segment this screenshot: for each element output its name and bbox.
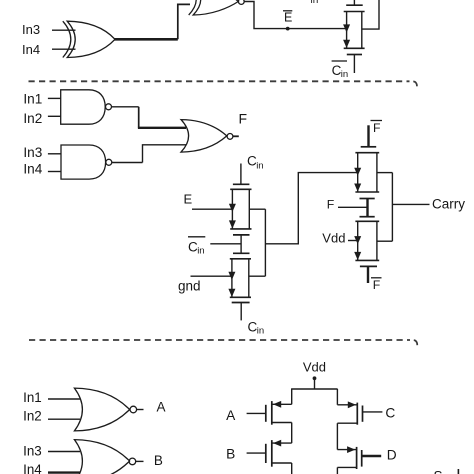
wire Carry output bbox=[392, 203, 429, 205]
current arrow bbox=[354, 184, 361, 192]
transistor QC gate lead bbox=[363, 411, 383, 413]
nor-gate U3 bubble bbox=[227, 134, 233, 140]
transistor M3 top gate bar bbox=[233, 183, 250, 185]
current arrow 1 bbox=[343, 24, 350, 32]
current arrow bbox=[229, 204, 236, 212]
transistor QC source stub + arrow bbox=[337, 404, 357, 406]
wire Vdd stub bbox=[314, 378, 316, 389]
xor-gate G1 input arc bbox=[63, 21, 71, 57]
wire In1 to NOR-A bbox=[48, 398, 80, 400]
pass box1 bottom lid bbox=[230, 228, 251, 230]
svg-text:In4: In4 bbox=[23, 161, 42, 176]
pass box1 right channel bbox=[248, 189, 250, 229]
pass box1 top lid bbox=[230, 188, 251, 190]
transistor M7 top gate stub (thick) bbox=[367, 125, 369, 147]
wire box2 right tap bbox=[249, 275, 266, 277]
wire box1 right tap bbox=[249, 208, 265, 210]
wire carry bus vertical bbox=[391, 173, 393, 242]
transistor QD drain stub bbox=[337, 466, 356, 468]
transistor M8 gate bar upper bbox=[360, 198, 375, 200]
wire NOR-A out bbox=[137, 409, 144, 411]
wire Vdd rail bbox=[291, 388, 338, 390]
wire E input bbox=[192, 208, 232, 210]
pass box2 bottom lid bbox=[230, 296, 251, 298]
wire NAND1 to NOR (thick) bbox=[138, 127, 186, 129]
wire left column upper bbox=[291, 389, 293, 404]
transistor M6 bottom gate stub bbox=[240, 303, 242, 321]
pass box1 left channel bbox=[231, 189, 233, 229]
wire gnd input bbox=[191, 275, 232, 277]
transistor M7 top gate bar bbox=[361, 146, 377, 148]
xnor-gate G2 input arc bbox=[189, 0, 197, 15]
wire In2 to NOR-A bbox=[48, 418, 80, 420]
pass box3 bottom lid bbox=[355, 191, 379, 193]
svg-text:in: in bbox=[341, 69, 348, 80]
wire In2 to NAND1 bbox=[48, 115, 61, 117]
wire In4 input to XOR bbox=[52, 48, 76, 50]
pass box4 left channel bbox=[357, 221, 359, 260]
transistor M5 gate bar lower bbox=[233, 252, 250, 254]
svg-text:F: F bbox=[373, 121, 381, 135]
transistor QB gate lead bbox=[247, 452, 266, 454]
current arrow bbox=[354, 168, 361, 176]
wire In3 to NAND2 bbox=[48, 153, 61, 155]
nor-gate U4 bubble bbox=[130, 406, 137, 413]
svg-text:In3: In3 bbox=[23, 145, 42, 160]
svg-text:In3: In3 bbox=[22, 22, 40, 37]
transistor M10 bottom gate stub (thick) bbox=[367, 266, 369, 283]
svg-text:In1: In1 bbox=[23, 390, 42, 405]
pass box4 top lid bbox=[355, 220, 379, 222]
wire below QD bbox=[336, 467, 338, 474]
wire NAND2 jog up bbox=[143, 145, 187, 163]
pass box3 left channel bbox=[357, 153, 359, 192]
xnor-gate G2 output bubble bbox=[238, 0, 244, 4]
nor-gate U3 body bbox=[181, 120, 227, 153]
svg-text:In4: In4 bbox=[23, 462, 42, 474]
wire right column upper bbox=[336, 389, 338, 405]
transistor M1 top gate bar bbox=[346, 4, 363, 6]
svg-text:D: D bbox=[387, 448, 397, 463]
transistor M3 top gate stub bbox=[240, 164, 242, 185]
wire In3 to NOR-B bbox=[48, 451, 80, 453]
wire NAND2 out bbox=[112, 162, 143, 164]
pass box4 bottom lid bbox=[355, 259, 379, 261]
transistor QA gate bar bbox=[265, 405, 267, 422]
wire Vdd input bbox=[348, 240, 358, 242]
dashed divider 1 bbox=[29, 80, 410, 82]
pass box2 right channel bbox=[248, 259, 250, 298]
wire NOR-B out bbox=[136, 460, 144, 462]
current arrow bbox=[354, 236, 361, 244]
wire NAND1 out bbox=[112, 106, 139, 108]
wire In3 input to XOR bbox=[52, 29, 76, 31]
transistor QC gate bar bbox=[362, 406, 364, 422]
label Fbar overbar (top) bbox=[371, 120, 383, 122]
svg-text:E: E bbox=[184, 191, 193, 206]
wire between QA QB bbox=[291, 423, 293, 444]
pass box2 top lid bbox=[230, 258, 251, 260]
wire below QB bbox=[291, 463, 293, 474]
pass box3 top lid bbox=[355, 152, 379, 154]
svg-text:F: F bbox=[327, 198, 335, 212]
svg-text:Vdd: Vdd bbox=[303, 359, 326, 374]
svg-text:In2: In2 bbox=[23, 111, 42, 126]
wire NAND1 jog down bbox=[138, 107, 140, 128]
transistor M9 gate bar lower bbox=[360, 216, 375, 218]
wire vertical up to XNOR bbox=[178, 4, 190, 39]
transistor QA drain stub bbox=[272, 422, 292, 424]
dashed divider 1 corner hook bbox=[413, 81, 417, 86]
wire right bus vertical bbox=[264, 209, 266, 276]
svg-text:In3: In3 bbox=[23, 443, 42, 458]
svg-text:A: A bbox=[226, 408, 236, 423]
transistor M1/M2 pass box top lid bbox=[344, 11, 365, 13]
pass box3 right channel bbox=[376, 153, 378, 192]
transistor M4 gate bar upper bbox=[233, 234, 250, 236]
svg-text:Carry: Carry bbox=[432, 197, 465, 212]
transistor QD channel bbox=[356, 447, 358, 469]
transistor QD gate lead (thick) bbox=[362, 455, 382, 457]
svg-text:In2: In2 bbox=[23, 409, 42, 424]
transistor QB source stub + arrow bbox=[272, 442, 292, 444]
current arrow bbox=[228, 272, 235, 280]
svg-text:In4: In4 bbox=[22, 42, 40, 57]
transistor M2 bottom gate stub bbox=[353, 55, 355, 74]
current arrow 2 bbox=[343, 40, 350, 48]
wire box4 right tap bbox=[377, 240, 393, 242]
nand-gate U1 body bbox=[61, 90, 105, 124]
transistor gate stub (Cinbar) bbox=[240, 235, 242, 253]
wire F to gate stub bbox=[338, 206, 368, 208]
transistor M10 bottom gate bar bbox=[360, 265, 377, 267]
wire In4 to NAND2 bbox=[48, 171, 61, 173]
transistor QA channel bbox=[271, 401, 273, 425]
svg-text:E: E bbox=[284, 11, 292, 25]
nand-gate U2 bubble bbox=[106, 159, 112, 165]
node Ebar overbar bbox=[283, 10, 292, 12]
svg-text:S: S bbox=[434, 469, 443, 474]
transistor M6 bottom gate bar bbox=[232, 302, 250, 304]
svg-text:C: C bbox=[385, 405, 395, 420]
svg-text:B: B bbox=[154, 453, 163, 468]
pass box right channel bbox=[361, 12, 363, 49]
svg-text:in: in bbox=[311, 0, 319, 6]
svg-text:in: in bbox=[257, 326, 264, 337]
wire Cin-bar to gate stub bbox=[210, 243, 241, 245]
pass box2 left channel bbox=[231, 259, 233, 298]
nor-gate U5 body (cropped) bbox=[74, 440, 129, 474]
transistor QB channel bbox=[271, 440, 273, 467]
pass box left channel bbox=[346, 12, 348, 49]
wire between QC QD bbox=[336, 423, 338, 449]
transistor M1 top gate stub (cropped) bbox=[353, 0, 355, 5]
wire box3 right tap bbox=[377, 172, 393, 174]
wire right tap of top box bbox=[362, 0, 379, 29]
nand-gate U2 body bbox=[61, 145, 106, 179]
dashed divider 2 bbox=[29, 339, 410, 341]
transistor QB drain stub bbox=[272, 462, 292, 464]
transistor QB gate bar bbox=[265, 444, 267, 463]
xor-gate G1 body bbox=[67, 21, 115, 57]
pass box bottom lid bbox=[344, 47, 365, 49]
wire In4 to NOR-B (thick) bbox=[48, 471, 80, 473]
pass box4 right channel bbox=[376, 221, 378, 260]
current arrow bbox=[354, 252, 361, 260]
svg-text:in: in bbox=[256, 161, 263, 172]
label Cin-bar overbar (center) bbox=[188, 236, 205, 238]
transistor QD gate bar bbox=[361, 450, 363, 467]
svg-text:gnd: gnd bbox=[178, 279, 201, 294]
wire middle tap to carry stage bbox=[265, 173, 357, 244]
nor-gate U5 bubble bbox=[129, 458, 136, 465]
svg-text:F: F bbox=[373, 278, 381, 292]
nand-gate U1 bubble bbox=[106, 104, 112, 110]
dashed divider 2 corner hook bbox=[414, 340, 418, 345]
current arrow bbox=[228, 289, 235, 297]
wire NOR out bbox=[233, 135, 239, 137]
transistor QA gate lead bbox=[247, 412, 266, 414]
label Fbar overbar (bottom) bbox=[371, 277, 382, 279]
nor-gate U4 body bbox=[74, 388, 129, 431]
transistor QD source stub + arrow bbox=[337, 449, 356, 451]
wire XNOR output to Ebar rail bbox=[244, 2, 346, 29]
transistor QC drain stub bbox=[337, 422, 357, 424]
svg-text:F: F bbox=[239, 111, 248, 127]
transistor QA source stub + arrow bbox=[272, 403, 292, 405]
svg-text:in: in bbox=[197, 246, 204, 257]
current arrow bbox=[229, 220, 236, 228]
wire XOR output (thick) bbox=[115, 38, 178, 41]
svg-text:B: B bbox=[226, 446, 235, 461]
xnor-gate G2 (cropped at top edge) body bbox=[193, 0, 238, 15]
junction dot on Ebar rail bbox=[286, 27, 290, 31]
svg-text:Vdd: Vdd bbox=[322, 231, 345, 246]
wire In1 to NAND1 bbox=[48, 97, 61, 99]
transistor gate stub F (thick) bbox=[366, 199, 368, 217]
label Cin-bar overbar (top stack) bbox=[332, 60, 347, 62]
transistor M2 bottom gate bar bbox=[347, 54, 362, 56]
svg-text:In1: In1 bbox=[23, 92, 42, 107]
transistor QC channel bbox=[356, 403, 358, 425]
svg-text:A: A bbox=[157, 399, 166, 414]
junction dot Vdd bbox=[313, 376, 317, 380]
